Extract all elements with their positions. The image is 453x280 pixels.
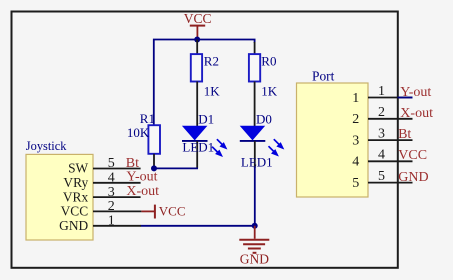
svg-text:4: 4 bbox=[352, 155, 359, 170]
node GND junction bbox=[252, 223, 258, 229]
svg-text:GND: GND bbox=[59, 218, 88, 233]
resistor R2 bbox=[191, 40, 221, 127]
svg-text:4: 4 bbox=[108, 171, 115, 186]
svg-text:D1: D1 bbox=[198, 111, 214, 126]
pin GND 1 bbox=[59, 214, 141, 234]
svg-text:1: 1 bbox=[108, 214, 115, 229]
svg-text:10K: 10K bbox=[127, 125, 150, 140]
LED D0 bbox=[240, 111, 283, 169]
svg-text:3: 3 bbox=[378, 126, 385, 141]
svg-text:R2: R2 bbox=[204, 53, 219, 68]
wire net Bt horizontal bbox=[154, 167, 198, 169]
ground GND symbol bbox=[239, 226, 269, 267]
svg-text:Bt: Bt bbox=[398, 127, 411, 142]
svg-text:Y-out: Y-out bbox=[400, 85, 431, 100]
svg-text:Joystick: Joystick bbox=[26, 139, 67, 153]
wire Y-out stub bbox=[398, 97, 413, 99]
svg-text:X-out: X-out bbox=[126, 184, 159, 199]
svg-text:4: 4 bbox=[378, 148, 385, 163]
svg-text:2: 2 bbox=[108, 199, 115, 214]
pin Port 4 bbox=[352, 148, 412, 170]
svg-text:2: 2 bbox=[378, 105, 385, 120]
node VCC junction bbox=[194, 37, 200, 43]
svg-text:5: 5 bbox=[378, 169, 385, 184]
sheet border frame bbox=[12, 12, 398, 268]
svg-text:2: 2 bbox=[352, 112, 359, 127]
svg-text:LED1: LED1 bbox=[182, 139, 214, 154]
svg-text:VCC: VCC bbox=[398, 148, 427, 163]
svg-text:R0: R0 bbox=[261, 53, 276, 68]
resistor R1 bbox=[127, 111, 160, 168]
pin SW 5 bbox=[68, 156, 140, 176]
svg-text:3: 3 bbox=[108, 185, 115, 200]
svg-text:GND: GND bbox=[240, 252, 269, 267]
svg-text:D0: D0 bbox=[256, 111, 272, 126]
svg-text:X-out: X-out bbox=[400, 106, 433, 121]
pin Port 2 bbox=[352, 105, 412, 127]
resistor R0 bbox=[249, 42, 278, 126]
power VCC (top) bbox=[184, 11, 212, 39]
svg-text:GND: GND bbox=[398, 170, 428, 185]
pin VRx 3 bbox=[63, 185, 141, 205]
component Port box bbox=[297, 68, 369, 197]
pin VRy 4 bbox=[63, 171, 140, 191]
component Joystick box bbox=[26, 139, 93, 240]
svg-text:VRx: VRx bbox=[63, 189, 89, 204]
svg-text:1K: 1K bbox=[261, 83, 278, 98]
svg-text:VCC: VCC bbox=[184, 11, 212, 26]
wire D0 cathode to GND bbox=[254, 167, 256, 226]
svg-text:VCC: VCC bbox=[159, 204, 186, 219]
svg-text:VCC: VCC bbox=[61, 204, 89, 219]
svg-text:5: 5 bbox=[352, 176, 359, 191]
svg-text:VRy: VRy bbox=[63, 175, 88, 190]
svg-text:Y-out: Y-out bbox=[126, 169, 157, 184]
pin VCC 2 bbox=[61, 199, 142, 219]
power VCC (joystick pin 2) bbox=[141, 204, 185, 219]
svg-text:SW: SW bbox=[68, 161, 88, 176]
pin Port 5 bbox=[352, 169, 412, 191]
svg-text:R1: R1 bbox=[140, 111, 155, 126]
pin Port 1 bbox=[352, 84, 412, 106]
node Bt junction bbox=[151, 165, 157, 171]
svg-text:5: 5 bbox=[108, 156, 115, 171]
pin Port 3 bbox=[352, 126, 412, 148]
svg-text:3: 3 bbox=[352, 133, 359, 148]
svg-text:1: 1 bbox=[352, 91, 359, 106]
svg-text:1: 1 bbox=[378, 84, 385, 99]
svg-text:LED1: LED1 bbox=[241, 154, 273, 169]
svg-text:1K: 1K bbox=[204, 83, 221, 98]
svg-text:Port: Port bbox=[312, 68, 335, 83]
wire VCC top rail bbox=[154, 40, 255, 126]
LED D1 bbox=[182, 111, 226, 168]
wire GND rail bbox=[141, 225, 255, 227]
